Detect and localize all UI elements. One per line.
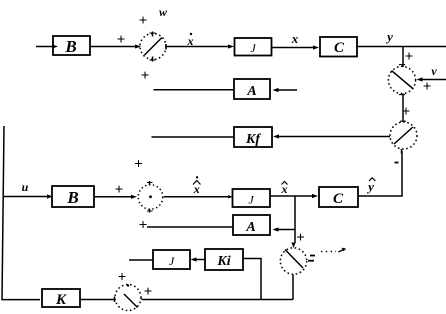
- label y: [385, 29, 393, 44]
- wire: A output to left: [154, 89, 235, 91]
- label xhatdot: [193, 176, 201, 196]
- label w: [159, 5, 168, 19]
- wire: u into B2 with arrowhead: [3, 194, 53, 198]
- svg-text:Ki: Ki: [216, 254, 230, 269]
- wire: sum2 down to sum3: [402, 94, 404, 123]
- svg-text:A: A: [246, 84, 256, 99]
- plus sign (xhat into sum5): [296, 230, 305, 246]
- svg-text:x: x: [291, 31, 299, 46]
- wire: y branch down to sum2: [402, 47, 404, 68]
- plus sign (w into sum1): [139, 13, 148, 29]
- svg-text:K: K: [55, 292, 67, 308]
- svg-text:y: y: [385, 29, 393, 44]
- wire: arrow into A from right: [273, 88, 298, 92]
- block C2 (observer output matrix): [319, 187, 358, 207]
- plus sign (A2 into sum4): [139, 218, 148, 234]
- label x: [291, 31, 299, 46]
- wire: J to C with arrowhead: [272, 45, 320, 49]
- svg-text:+: +: [115, 182, 124, 198]
- wire: B to sum1: [90, 46, 140, 48]
- wire: C2 output right then up to sum3: [358, 151, 402, 196]
- svg-text:+: +: [134, 157, 143, 173]
- wire: sum3 output to Kf with arrowhead: [273, 134, 390, 138]
- wire: xhat branch down to sum5 with arrowhead: [291, 196, 295, 248]
- label v: [431, 64, 437, 78]
- svg-text:Kf: Kf: [245, 132, 261, 147]
- plus sign (J3 path into sum6): [118, 270, 127, 286]
- plus sign (Kf into sum4): [134, 157, 143, 173]
- block A2 (observer dynamics matrix): [233, 215, 270, 235]
- svg-text:u: u: [22, 180, 29, 194]
- plus sign (y into sum2): [405, 49, 414, 65]
- annotation: dotted arrow right of sum5: [321, 248, 346, 252]
- block B (plant input matrix): [53, 36, 90, 56]
- wire: C output to right edge: [357, 46, 446, 48]
- wire: Ki right side down to bottom rail: [243, 259, 261, 300]
- svg-text:B: B: [64, 37, 76, 56]
- svg-text:J: J: [248, 193, 254, 207]
- wire: left feedback vertical: [2, 126, 40, 300]
- plus sign (B2 into sum4): [115, 182, 124, 198]
- wire: sum5 bottom down to bottom rail: [292, 275, 294, 300]
- summing junction sum5: [280, 248, 306, 274]
- block C (plant output matrix): [320, 37, 357, 57]
- wire: into J3 from left: [129, 259, 153, 261]
- svg-text:J: J: [169, 254, 175, 268]
- svg-text:+: +: [139, 13, 148, 29]
- summing junction sum4 (observer): [138, 181, 163, 213]
- block J2 (observer integrator): [233, 189, 271, 207]
- svg-text:J: J: [250, 41, 256, 55]
- block J (plant integrator): [235, 38, 272, 56]
- svg-text:B: B: [66, 188, 78, 207]
- summing junction sum6: [115, 284, 142, 310]
- block B2 (observer input matrix): [52, 186, 94, 207]
- wire: sum4 to J2 with arrowhead: [164, 195, 233, 198]
- wire: Kf output to left: [152, 136, 235, 138]
- label xdot: [187, 33, 194, 48]
- svg-text:+: +: [139, 218, 148, 234]
- block J3 (integrator): [153, 250, 190, 269]
- svg-text:w: w: [159, 5, 168, 19]
- plus sign (right input into sum6): [144, 284, 153, 300]
- wire: A2 output to left: [147, 226, 233, 228]
- svg-text:+: +: [405, 49, 414, 65]
- svg-text:+: +: [117, 32, 126, 48]
- plus sign (B into sum1): [117, 32, 126, 48]
- svg-text:+: +: [144, 284, 153, 300]
- svg-text:+: +: [141, 68, 150, 84]
- plus sign (v into sum2): [423, 79, 432, 95]
- svg-text:+: +: [423, 79, 432, 95]
- summing junction sum1: [135, 32, 166, 62]
- plus sign (into sum3): [402, 104, 411, 120]
- block K (state feedback gain): [42, 289, 80, 308]
- plus sign (A feedback into sum1): [141, 68, 150, 84]
- svg-text:C: C: [333, 191, 344, 207]
- wire: J2 to C2 with arrowhead: [270, 194, 318, 198]
- svg-text:C: C: [334, 40, 345, 56]
- label u: [22, 180, 29, 194]
- wire: bottom rail from sum6 to sum5: [142, 299, 294, 301]
- svg-text:+: +: [118, 270, 127, 286]
- wire: B2 to sum4 with arrowhead: [94, 195, 137, 199]
- wire: input arrow into B: [36, 44, 58, 48]
- svg-text:x: x: [187, 34, 194, 48]
- wire: Ki to J3 arrow: [191, 257, 206, 261]
- label yhat: [366, 178, 375, 194]
- svg-text:v: v: [431, 64, 437, 78]
- wire: sum1 to J with arrowhead: [167, 44, 235, 48]
- summing junction sum2 (measurement noise): [388, 65, 415, 95]
- block A (plant dynamics matrix): [234, 79, 270, 99]
- block Ki (integral gain): [205, 249, 243, 270]
- annotation: equals mark right of sum5: [308, 256, 315, 261]
- summing junction sum3 (innovation): [390, 121, 417, 153]
- block Kf (Kalman filter gain): [234, 127, 272, 147]
- svg-text:+: +: [296, 230, 305, 246]
- minus sign (yhat into sum3): [395, 162, 399, 164]
- svg-text:+: +: [402, 104, 411, 120]
- svg-text:A: A: [245, 220, 255, 235]
- svg-text:y: y: [366, 179, 374, 194]
- wire: arrow into A2 from xhat branch: [273, 227, 296, 231]
- wire: sum6 output into K: [81, 299, 115, 301]
- wire: v arrow from right edge into sum2: [417, 77, 446, 81]
- label xhat: [281, 182, 288, 197]
